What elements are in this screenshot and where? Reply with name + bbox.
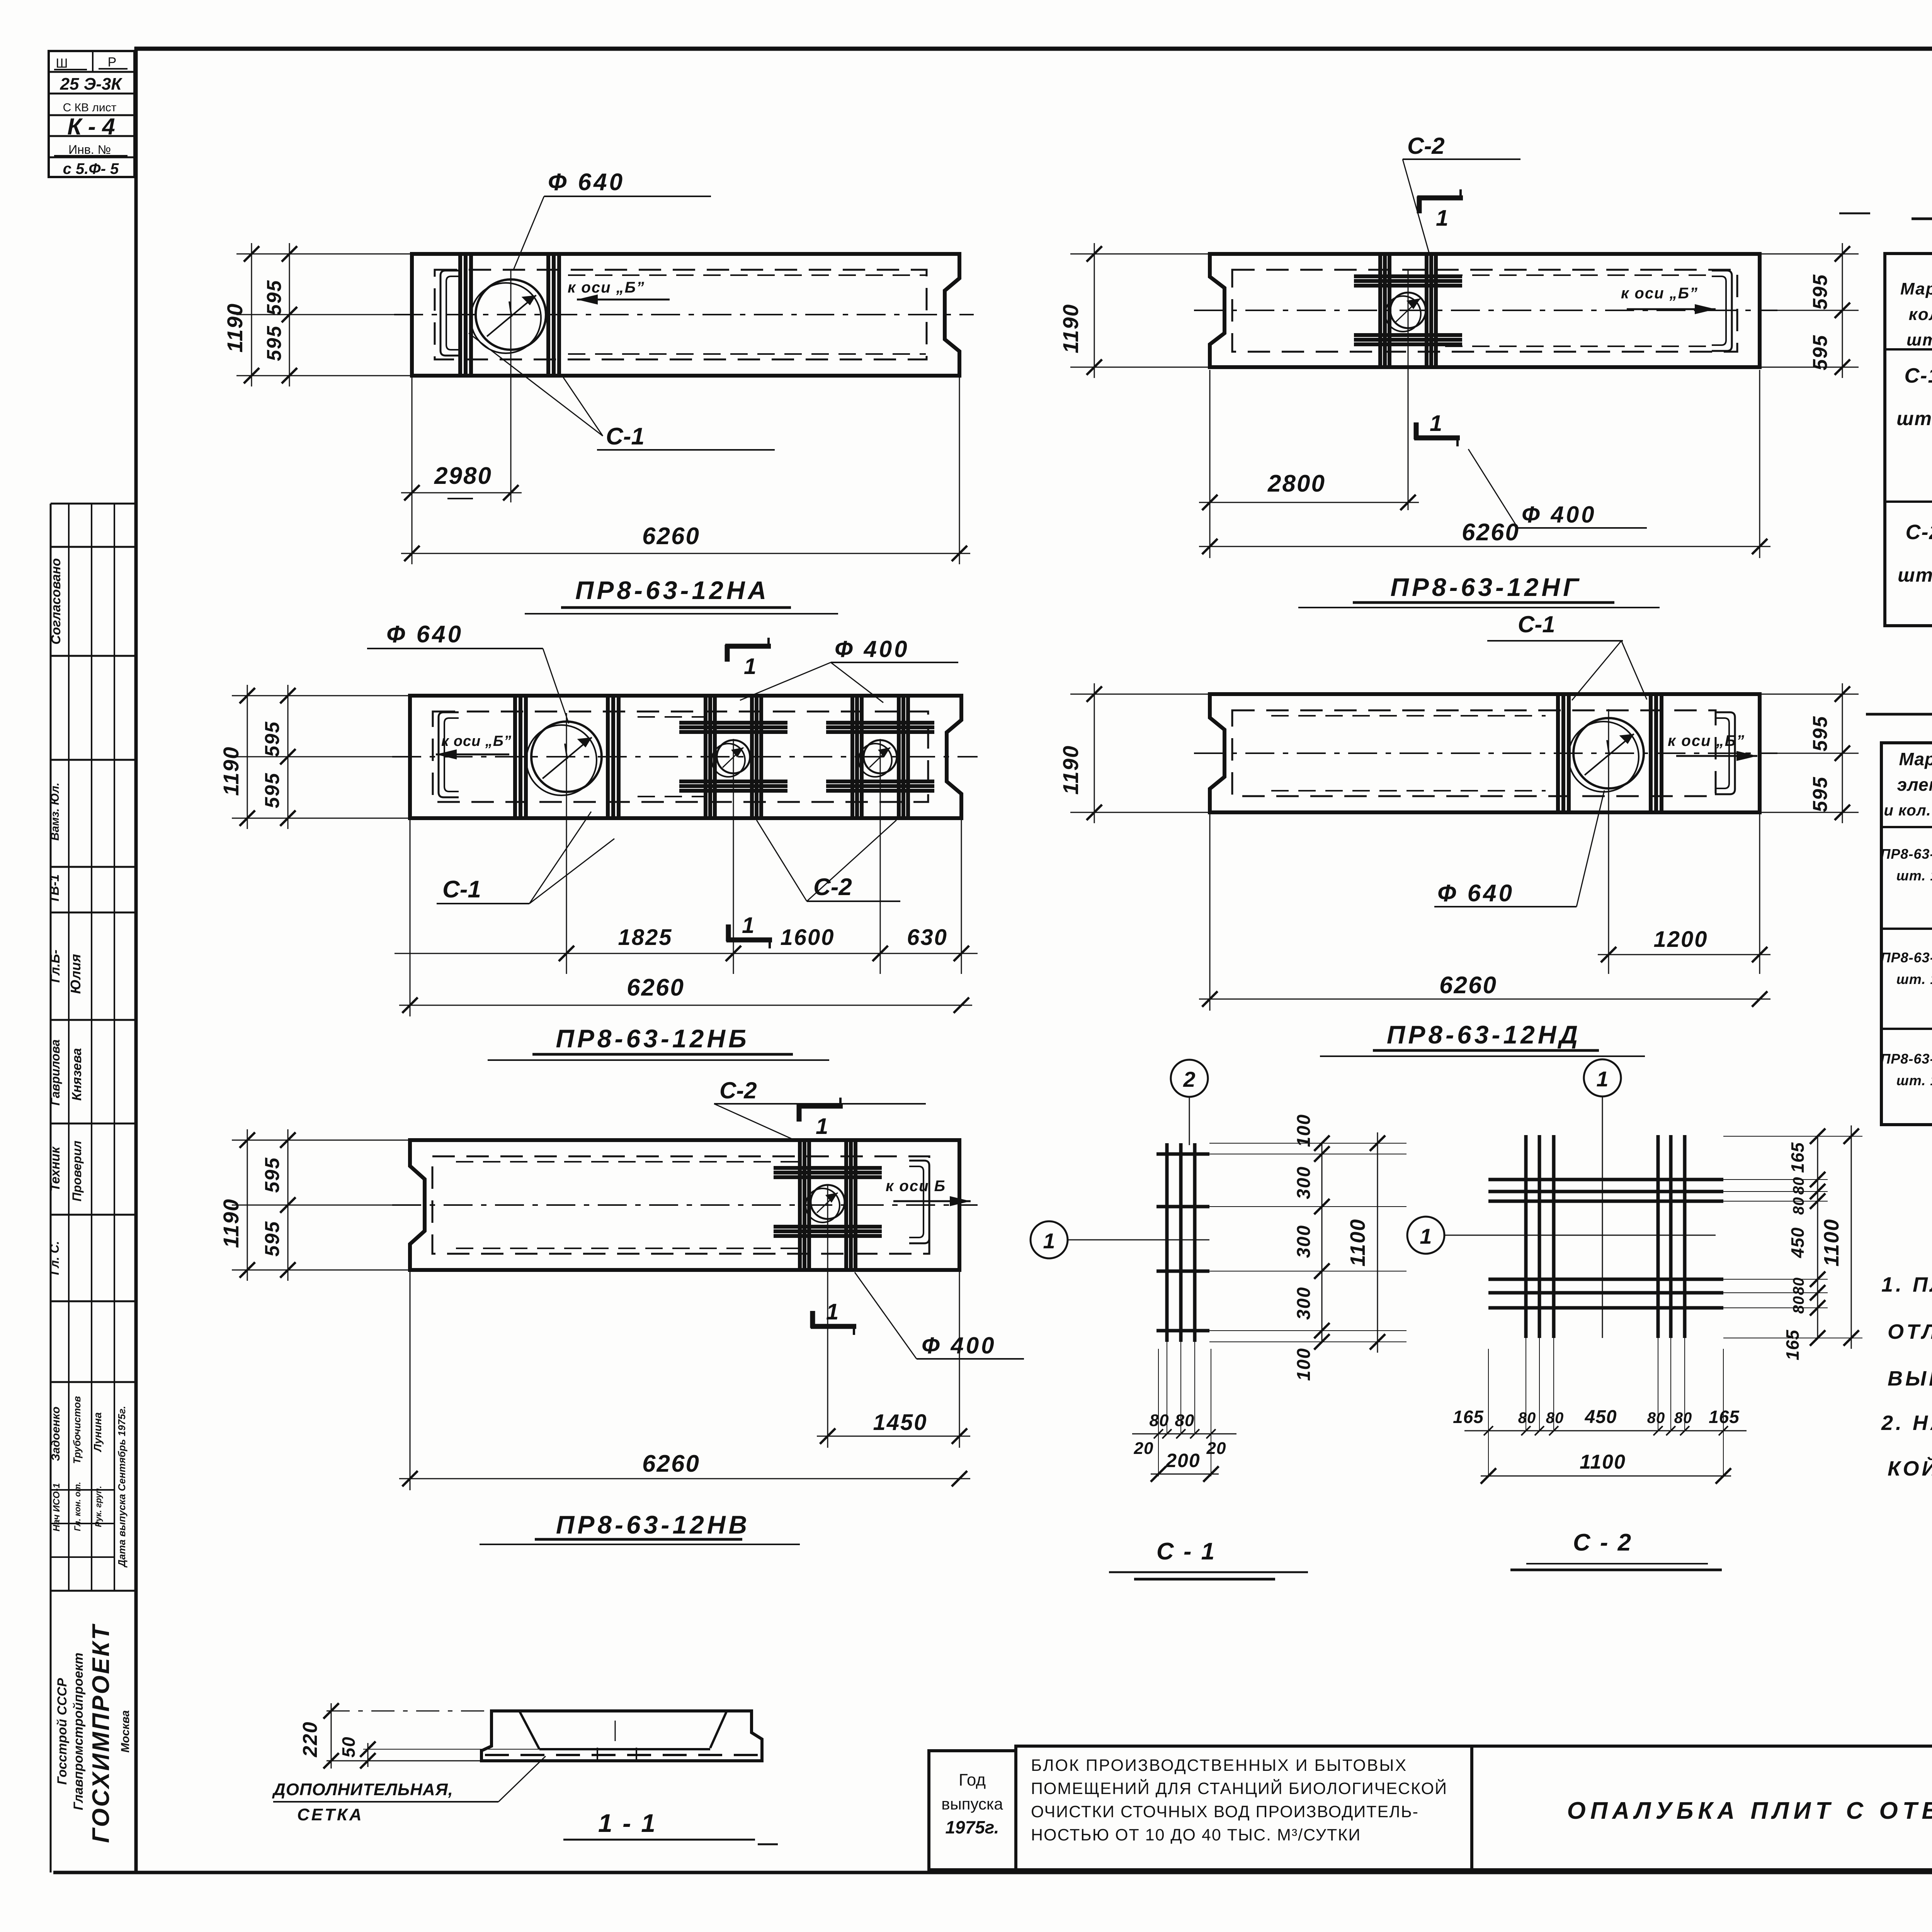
slab NB left recess bracket	[439, 712, 459, 797]
svg-text:595: 595	[261, 773, 284, 809]
svg-text:Задоенко: Задоенко	[49, 1406, 62, 1461]
svg-text:к оси Б: к оси Б	[886, 1178, 946, 1195]
detail C-2 node circle 1 top	[1584, 1059, 1621, 1338]
svg-text:1100: 1100	[1820, 1219, 1843, 1266]
slab ND mesh C-1 bars	[1558, 693, 1662, 814]
notes text	[1881, 1273, 1932, 1480]
section 1-1 additional mesh dashed	[485, 1748, 758, 1762]
table vyborka left header	[1884, 747, 1932, 819]
svg-text:ВЫП. 4 НАЛИЧИЕМ ОТВЕРСТИЙ.: ВЫП. 4 НАЛИЧИЕМ ОТВЕРСТИЙ.	[1888, 1366, 1932, 1390]
label osi B slab NB	[436, 733, 512, 759]
svg-text:80: 80	[1647, 1409, 1665, 1426]
svg-text:К - 4: К - 4	[67, 114, 115, 140]
svg-text:1100: 1100	[1346, 1219, 1369, 1266]
table vyborka left data	[1881, 844, 1932, 1088]
svg-text:шт.: шт.	[1906, 330, 1932, 349]
detail C-2 title	[1510, 1529, 1722, 1570]
slab NB small hole 2 with C-2 mesh	[826, 694, 934, 974]
svg-text:Нач ИСО-1: Нач ИСО-1	[51, 1483, 62, 1531]
left dims slab NB	[219, 685, 410, 829]
svg-text:80: 80	[1790, 1277, 1807, 1295]
svg-text:выпуска: выпуска	[941, 1795, 1003, 1813]
slab NG center line	[1194, 310, 1777, 311]
svg-text:100: 100	[1294, 1114, 1314, 1147]
svg-text:6260: 6260	[627, 974, 685, 1001]
svg-text:ПР8-63-12НД: ПР8-63-12НД	[1387, 1020, 1581, 1049]
svg-text:СЕТКА: СЕТКА	[297, 1805, 364, 1824]
svg-text:1190: 1190	[223, 303, 247, 352]
margin signatures rotated text	[47, 558, 128, 1568]
slab NG hole F400	[1385, 271, 1426, 510]
svg-text:100: 100	[1294, 1348, 1314, 1381]
svg-text:1190: 1190	[219, 746, 243, 796]
svg-text:165: 165	[1709, 1407, 1740, 1427]
slab PR8-63-12ND outline	[1210, 694, 1760, 812]
svg-text:1: 1	[1430, 411, 1442, 436]
table vyborka title	[1866, 679, 1932, 714]
svg-text:Ф 640: Ф 640	[548, 169, 625, 196]
svg-text:25 Э-3К: 25 Э-3К	[60, 75, 123, 94]
svg-text:1200: 1200	[1653, 927, 1708, 952]
svg-text:1190: 1190	[1058, 745, 1083, 795]
title slab ND	[1320, 1020, 1645, 1056]
svg-text:595: 595	[261, 1221, 284, 1257]
svg-text:1: 1	[1596, 1067, 1608, 1091]
svg-text:Техник: Техник	[48, 1146, 63, 1192]
svg-text:ПР8-63-12НА: ПР8-63-12НА	[575, 576, 769, 604]
svg-text:С-2: С-2	[1407, 133, 1445, 159]
slab NB hole F640	[526, 713, 602, 974]
svg-text:Ф 400: Ф 400	[1522, 502, 1597, 528]
svg-text:Гаврилова: Гаврилова	[48, 1039, 62, 1105]
left dims slab ND	[1058, 683, 1210, 823]
slab NG right recess bracket	[1712, 271, 1732, 351]
slab NV small hole with C-2 mesh	[774, 1139, 882, 1448]
svg-text:1100: 1100	[1580, 1451, 1626, 1473]
section mark top slab NV	[797, 1098, 843, 1139]
svg-text:80: 80	[1674, 1409, 1692, 1426]
label k osi B slab NA	[568, 279, 670, 305]
label F640 slab NA	[513, 169, 711, 271]
detail C-1 right dim chain	[1209, 1114, 1406, 1381]
section mark top slab NG	[1417, 189, 1463, 231]
slab ND center line	[1194, 752, 1777, 754]
dims slab NG	[1199, 370, 1770, 558]
svg-text:595: 595	[263, 325, 286, 361]
svg-text:80: 80	[1518, 1409, 1536, 1426]
title block main box	[1016, 1746, 1932, 1870]
svg-text:300: 300	[1294, 1225, 1314, 1258]
slab PR8-63-12NG outline	[1210, 254, 1760, 367]
svg-text:Дата выпуска Сентябрь 1975г.: Дата выпуска Сентябрь 1975г.	[116, 1406, 128, 1568]
svg-text:300: 300	[1294, 1287, 1314, 1320]
svg-text:ОЧИСТКИ СТОЧНЫХ ВОД ПРОИ: ОЧИСТКИ СТОЧНЫХ ВОД ПРОИЗВОДИТЕЛЬ-	[1031, 1803, 1419, 1821]
svg-text:80: 80	[1790, 1197, 1807, 1215]
svg-text:Проверил: Проверил	[70, 1140, 84, 1202]
svg-text:1: 1	[742, 913, 754, 938]
svg-text:ПР8-63-12НА: ПР8-63-12НА	[1881, 846, 1932, 862]
svg-text:1600: 1600	[780, 925, 835, 950]
svg-text:2800: 2800	[1267, 470, 1326, 497]
svg-text:Марка,: Марка,	[1900, 279, 1932, 298]
slab PR8-63-12NB outline	[410, 696, 961, 818]
svg-text:Гл. кон. от.: Гл. кон. от.	[73, 1482, 82, 1531]
svg-text:1975г.: 1975г.	[945, 1817, 999, 1837]
svg-text:ОТЛИЧАЮТСЯ ОТ ПЛИТ ПР8-63: ОТЛИЧАЮТСЯ ОТ ПЛИТ ПР8-63-12Н СЕРИИ ИИ-0…	[1888, 1320, 1932, 1343]
slab NV right recess bracket	[909, 1161, 929, 1243]
svg-text:ДОПОЛНИТЕЛЬНАЯ,: ДОПОЛНИТЕЛЬНАЯ,	[272, 1780, 453, 1799]
svg-text:шт. 4: шт. 4	[1898, 564, 1932, 586]
svg-text:6260: 6260	[1462, 519, 1520, 546]
slab ND inner dashed recess	[1232, 710, 1716, 796]
detail C-1 node circle 2	[1171, 1060, 1208, 1145]
svg-text:к оси „Б”: к оси „Б”	[1668, 732, 1745, 749]
slab NG mesh C-2 bars	[1354, 252, 1462, 369]
svg-text:с 5.Ф- 5: с 5.Ф- 5	[63, 160, 119, 177]
svg-text:595: 595	[1809, 716, 1832, 752]
svg-text:6260: 6260	[642, 1450, 700, 1477]
svg-text:595: 595	[261, 1157, 284, 1193]
leader C-1 slab ND	[1487, 611, 1647, 700]
section 1-1 dims	[299, 1703, 539, 1769]
svg-text:Согласовано: Согласовано	[49, 558, 63, 645]
svg-text:ТВ-1: ТВ-1	[47, 874, 62, 904]
detail C-1 node circle 1	[1031, 1221, 1209, 1258]
svg-text:6260: 6260	[642, 523, 700, 550]
svg-text:шт. 1: шт. 1	[1896, 868, 1932, 883]
svg-text:элем.: элем.	[1897, 775, 1932, 795]
title slab NV	[480, 1510, 800, 1544]
slab NB small hole 1 with C-2 mesh	[679, 694, 787, 974]
svg-text:165: 165	[1453, 1407, 1484, 1427]
svg-text:2. НА КАЖДОЙ ПЛИТЕ НАНЕС: 2. НА КАЖДОЙ ПЛИТЕ НАНЕСТИ МАСЛЯНОЙ КРАС…	[1881, 1411, 1932, 1435]
left dims slab NV	[219, 1129, 410, 1281]
svg-text:С-1: С-1	[606, 423, 645, 450]
svg-text:1. ПЛИТЫ ПР8-63-12Н С БУ: 1. ПЛИТЫ ПР8-63-12Н С БУКВЕННЫМИ ИНДЕКСА…	[1881, 1273, 1932, 1296]
svg-text:1: 1	[1436, 206, 1448, 231]
label k osi B slab NG	[1621, 285, 1716, 314]
chain dims slab NB	[395, 819, 978, 1016]
detail C-2 bottom dim chain	[1453, 1338, 1747, 1484]
svg-text:450: 450	[1584, 1407, 1617, 1427]
svg-text:Год: Год	[959, 1770, 986, 1789]
svg-text:Инв. №: Инв. №	[68, 143, 111, 157]
svg-text:1190: 1190	[1058, 304, 1083, 353]
svg-text:80: 80	[1175, 1411, 1195, 1430]
leader C-1 slab NA	[469, 333, 775, 450]
svg-text:С-2: С-2	[1905, 521, 1932, 544]
svg-text:шт. 1: шт. 1	[1896, 1072, 1932, 1088]
svg-text:50: 50	[338, 1736, 359, 1757]
svg-text:1825: 1825	[618, 925, 672, 950]
margin institute name	[55, 1623, 132, 1843]
section mark top slab NB	[725, 638, 771, 679]
table specification header text	[1900, 263, 1932, 349]
svg-text:к оси „Б”: к оси „Б”	[1621, 285, 1698, 302]
svg-text:595: 595	[1809, 274, 1832, 310]
svg-text:С КВ лист: С КВ лист	[63, 101, 117, 114]
svg-text:Ш: Ш	[56, 56, 68, 71]
svg-text:ОПАЛУБКА ПЛИТ С ОТВЕРСТИ: ОПАЛУБКА ПЛИТ С ОТВЕРСТИЯМИ.	[1567, 1798, 1932, 1824]
svg-text:595: 595	[263, 280, 286, 316]
detail C-2 node circle 1 left	[1407, 1217, 1716, 1254]
svg-text:Гл. С.: Гл. С.	[48, 1241, 61, 1275]
slab NV center line	[392, 1204, 978, 1206]
svg-text:Ф 400: Ф 400	[835, 636, 910, 662]
detail C-2 horizontal bars	[1488, 1180, 1723, 1308]
svg-text:630: 630	[907, 925, 948, 950]
title block god vypuska	[929, 1751, 1016, 1870]
left dims slab NA	[223, 243, 412, 386]
svg-text:и кол. шт.: и кол. шт.	[1884, 802, 1932, 819]
label F400 slab NG	[1468, 449, 1647, 528]
slab PR8-63-12NV outline	[410, 1140, 959, 1270]
svg-text:1 - 1: 1 - 1	[598, 1809, 657, 1837]
svg-text:220: 220	[299, 1721, 321, 1758]
section 1-1 mesh label	[272, 1756, 546, 1824]
svg-text:С-2: С-2	[719, 1077, 757, 1103]
svg-text:ПР8-63-12НГ: ПР8-63-12НГ	[1390, 573, 1582, 601]
svg-text:Гл.Б-: Гл.Б-	[48, 950, 63, 983]
slab NA center line	[394, 314, 974, 315]
slab NG inner dashed recess	[1232, 270, 1737, 352]
slab PR8-63-12NA outline	[412, 254, 959, 376]
table vyborka left grid	[1881, 743, 1932, 1125]
svg-text:80: 80	[1546, 1409, 1564, 1426]
svg-text:С-1: С-1	[1904, 364, 1932, 387]
svg-text:Москва: Москва	[119, 1710, 132, 1753]
leader C-1 slab NB	[437, 812, 614, 904]
svg-text:ПР8-63-12НБ: ПР8-63-12НБ	[1881, 950, 1932, 965]
title block project description	[1031, 1756, 1447, 1844]
svg-text:ПР8-63-12НВ: ПР8-63-12НВ	[1881, 1051, 1932, 1067]
svg-text:80: 80	[1150, 1411, 1169, 1430]
detail C-2 right dim chain	[1723, 1125, 1862, 1360]
svg-text:Трубочистов: Трубочистов	[71, 1396, 83, 1464]
svg-text:1: 1	[1420, 1224, 1432, 1248]
svg-text:Лунина: Лунина	[92, 1412, 104, 1452]
label F400 slab NV	[855, 1272, 1024, 1359]
svg-text:20: 20	[1134, 1439, 1154, 1458]
svg-text:ПР8-63-12НВ: ПР8-63-12НВ	[556, 1510, 750, 1539]
leader C-2 slab NB	[757, 820, 900, 901]
section mark bottom slab NV	[811, 1299, 856, 1335]
svg-text:КОЙ ЗНАК „→” И НАДПИСЬ: КОЙ ЗНАК „→” И НАДПИСЬ „ К ОСИ”	[1888, 1456, 1932, 1480]
svg-text:С - 2: С - 2	[1573, 1529, 1633, 1556]
slab NB center line	[392, 756, 978, 757]
svg-text:Юлия: Юлия	[68, 954, 83, 994]
svg-text:Ф 640: Ф 640	[386, 621, 463, 648]
svg-text:300: 300	[1294, 1166, 1314, 1199]
svg-text:БЛОК ПРОИЗВОДСТВЕННЫХ И: БЛОК ПРОИЗВОДСТВЕННЫХ И БЫТОВЫХ	[1031, 1756, 1407, 1775]
svg-text:2: 2	[1183, 1067, 1195, 1091]
svg-text:595: 595	[261, 721, 284, 757]
svg-text:80: 80	[1790, 1177, 1807, 1195]
svg-text:Госстрой СССР: Госстрой СССР	[55, 1678, 70, 1785]
section 1-1 title	[563, 1809, 778, 1844]
slab NV inner dashed recess	[432, 1156, 929, 1254]
svg-text:ГОСХИМПРОЕКТ: ГОСХИМПРОЕКТ	[88, 1623, 114, 1843]
svg-text:Вамз. Юл.: Вамз. Юл.	[49, 783, 61, 841]
title slab NG	[1298, 573, 1660, 608]
label F640 slab NB	[367, 621, 569, 723]
svg-text:450: 450	[1787, 1227, 1808, 1258]
svg-text:Рук. груп.: Рук. груп.	[94, 1486, 103, 1527]
detail C-1 title	[1109, 1538, 1308, 1579]
svg-text:Князева: Князева	[70, 1048, 84, 1101]
svg-text:595: 595	[1809, 776, 1832, 812]
table specification grid	[1885, 254, 1932, 626]
svg-text:20: 20	[1206, 1439, 1226, 1458]
slab NB big hole mesh C-1 bars	[515, 694, 619, 820]
svg-text:С - 1: С - 1	[1156, 1538, 1216, 1565]
svg-text:шт. 6: шт. 6	[1896, 408, 1932, 429]
svg-text:ПОМЕЩЕНИЙ ДЛЯ СТАНЦИЙ БИОЛОГИЧ: ПОМЕЩЕНИЙ ДЛЯ СТАНЦИЙ БИОЛОГИЧЕСКОЙ	[1031, 1779, 1447, 1798]
slab NA hole F640	[471, 271, 546, 502]
section mark bottom slab NB	[726, 913, 772, 948]
slab ND hole F640	[1568, 709, 1644, 974]
dims slab ND	[1199, 814, 1770, 1011]
svg-text:Марка: Марка	[1899, 749, 1932, 769]
svg-text:80: 80	[1790, 1296, 1807, 1314]
section 1-1 outline	[481, 1711, 762, 1761]
table specification data	[1896, 360, 1932, 586]
svg-text:6260: 6260	[1439, 972, 1497, 999]
svg-text:2980: 2980	[434, 463, 492, 489]
right dims slab ND	[1760, 683, 1859, 823]
title slab NB	[488, 1024, 829, 1060]
svg-text:1: 1	[1043, 1229, 1055, 1253]
section mark bottom slab NG	[1414, 411, 1460, 446]
slab NA mesh bars C-1	[460, 252, 559, 377]
detail C-1 horizontal bars	[1156, 1154, 1209, 1331]
title block sheet name	[1567, 1798, 1932, 1824]
title slab NA	[525, 576, 838, 614]
svg-text:Главпромстройпроект: Главпромстройпроект	[71, 1653, 86, 1810]
label F400 slab NB	[740, 636, 958, 703]
svg-text:1190: 1190	[219, 1198, 243, 1248]
svg-text:595: 595	[1809, 335, 1832, 371]
right dims slab NG	[1760, 243, 1859, 378]
leader C-2 slab NV	[714, 1077, 926, 1139]
svg-text:1: 1	[744, 654, 756, 679]
left dims slab NG	[1058, 243, 1210, 378]
dims slab NV	[399, 1272, 970, 1490]
slab NA inner dashed recess	[435, 270, 927, 359]
svg-text:200: 200	[1165, 1450, 1200, 1471]
svg-text:1: 1	[826, 1299, 838, 1324]
svg-text:НОСТЬЮ ОТ 10 ДО 40 ТЫС: НОСТЬЮ ОТ 10 ДО 40 ТЫС. М³/СУТКИ	[1031, 1826, 1361, 1844]
svg-text:Р: Р	[108, 55, 117, 70]
label k osi B slab NV	[886, 1178, 971, 1206]
svg-text:165: 165	[1787, 1142, 1808, 1173]
svg-text:к оси „Б”: к оси „Б”	[441, 733, 512, 749]
svg-text:С-1: С-1	[1518, 611, 1555, 637]
svg-text:ПР8-63-12НБ: ПР8-63-12НБ	[556, 1024, 749, 1053]
label C-2 slab NG	[1403, 133, 1520, 255]
label F640 slab ND	[1434, 790, 1604, 907]
margin signature table	[51, 504, 136, 1872]
slab ND right recess bracket	[1715, 712, 1735, 794]
table specification title	[1839, 187, 1932, 219]
svg-text:Ф 640: Ф 640	[1437, 880, 1514, 907]
bottom dims slab NA	[401, 377, 970, 564]
slab NB inner dashed recess	[433, 712, 928, 802]
detail C-1 bottom dim chain	[1132, 1342, 1236, 1482]
slab NA left recess bracket	[440, 271, 461, 356]
svg-text:к оси „Б”: к оси „Б”	[568, 279, 645, 296]
svg-text:шт. 1: шт. 1	[1896, 971, 1932, 987]
svg-text:кол.: кол.	[1909, 305, 1932, 324]
detail C-2 vertical bars	[1526, 1135, 1685, 1338]
detail C-1 vertical bars	[1167, 1143, 1195, 1342]
svg-text:165: 165	[1782, 1329, 1803, 1360]
svg-text:С-1: С-1	[442, 876, 481, 903]
svg-text:1450: 1450	[873, 1410, 927, 1435]
label k osi B slab ND	[1668, 732, 1757, 761]
margin top stamp block	[49, 51, 134, 177]
svg-text:1: 1	[816, 1114, 828, 1139]
